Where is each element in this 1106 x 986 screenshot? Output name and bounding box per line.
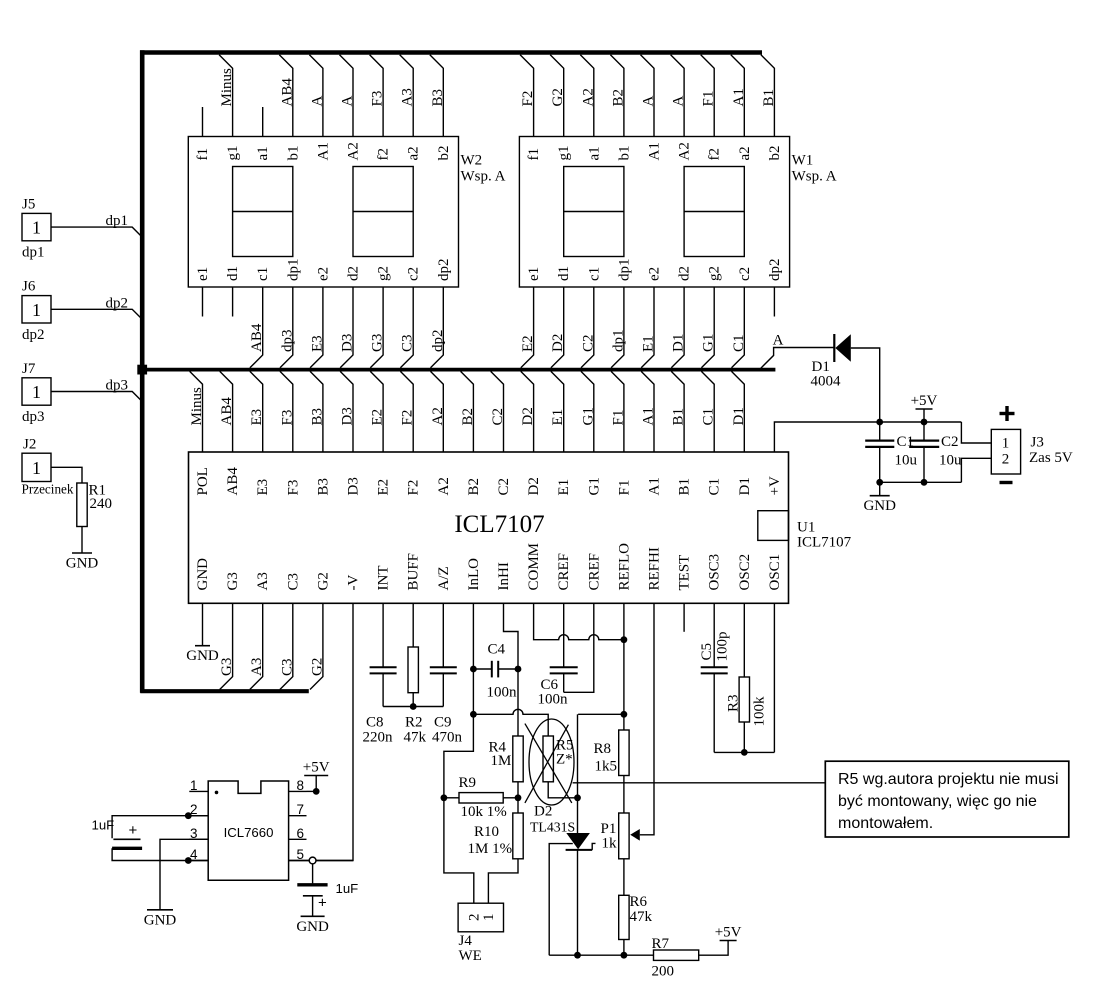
svg-text:D3: D3 <box>340 407 356 425</box>
wire net D3 display pin to middle bus <box>340 287 356 368</box>
label U1 ICL7107 designator <box>797 520 852 551</box>
svg-text:1: 1 <box>32 300 41 320</box>
connector J6 <box>22 279 51 343</box>
oscillator bottom rail <box>714 751 774 753</box>
resistor R3 100k <box>725 603 767 752</box>
svg-text:C3: C3 <box>279 658 295 676</box>
wire C8-R2-C9 common rail <box>383 706 443 708</box>
wire net A from middle bus end to diode D1 <box>761 333 834 369</box>
svg-text:d2: d2 <box>346 266 362 281</box>
bus junction at middle bus and vertical bus <box>137 365 147 375</box>
wire net F3 display pin to top bus <box>370 55 386 137</box>
wire net D3 middle bus to ICL7107 pin <box>340 371 356 452</box>
wire net A3 display pin to top bus <box>400 55 416 137</box>
svg-text:E2: E2 <box>520 335 536 352</box>
svg-text:J3: J3 <box>1031 435 1044 451</box>
svg-text:6: 6 <box>297 826 305 841</box>
svg-text:ICL7107: ICL7107 <box>797 535 852 551</box>
capacitor 1uF pump <box>92 818 143 849</box>
ground below C1 <box>879 482 881 495</box>
junction R5-TL431 <box>574 794 581 801</box>
svg-text:e1: e1 <box>526 267 542 281</box>
W1 pin labels bottom row <box>526 259 783 282</box>
svg-text:B3: B3 <box>430 89 446 107</box>
connector J7 <box>22 361 51 425</box>
power/display bus - left vertical bus <box>140 50 145 693</box>
svg-text:G2: G2 <box>315 572 331 590</box>
svg-text:GND: GND <box>144 912 177 928</box>
W1 digit glyph left <box>564 167 624 257</box>
svg-text:1: 1 <box>32 218 41 238</box>
minus mark at J3 <box>1000 481 1013 484</box>
wire net C3 ICL7107 pin to bottom bus <box>279 603 295 689</box>
wire net dp1 display pin to middle bus <box>610 287 626 368</box>
svg-text:A2: A2 <box>436 477 452 495</box>
svg-text:c2: c2 <box>737 267 753 281</box>
ground below R1 <box>66 553 99 572</box>
svg-text:R10: R10 <box>474 824 499 840</box>
wire InLO pin down <box>472 603 474 714</box>
svg-text:240: 240 <box>90 496 113 512</box>
svg-text:1uF: 1uF <box>92 818 115 833</box>
svg-text:a1: a1 <box>586 146 602 160</box>
wire pump capacitor to pin4 <box>112 848 208 860</box>
svg-text:C3: C3 <box>400 334 416 352</box>
W1 digit glyph right <box>684 167 744 257</box>
svg-text:B2: B2 <box>460 408 476 426</box>
wire InLO node to R5 top with hop over R4 <box>473 709 548 736</box>
junction C1 bottom <box>876 479 883 486</box>
svg-text:R3: R3 <box>725 694 741 712</box>
svg-text:D2: D2 <box>526 477 542 495</box>
svg-text:F2: F2 <box>400 410 416 426</box>
7-segment display W2 <box>188 137 458 288</box>
wire pin5 to -V line <box>307 860 354 862</box>
svg-text:100n: 100n <box>487 685 518 701</box>
wire net Minus middle bus to ICL7107 pin <box>189 371 205 452</box>
wire J7 dp3 to vertical bus <box>51 378 141 401</box>
connector J3 Zas 5V <box>991 429 1073 474</box>
svg-text:dp1: dp1 <box>22 245 45 261</box>
svg-text:E3: E3 <box>309 335 325 352</box>
U1 tab mark on right edge <box>758 511 789 541</box>
svg-text:Zas 5V: Zas 5V <box>1029 450 1073 466</box>
svg-text:a2: a2 <box>406 146 422 160</box>
junction C4 left <box>470 666 477 673</box>
svg-text:E3: E3 <box>255 479 271 496</box>
wire COMM to REFLO with hops over CREF <box>534 603 624 639</box>
wire OSC1 down to oscillator rail <box>773 603 775 752</box>
svg-text:47k: 47k <box>404 730 427 746</box>
svg-text:W1: W1 <box>792 153 814 169</box>
wire net C2 display pin to middle bus <box>580 287 596 368</box>
resistor R4 1M <box>489 736 524 782</box>
svg-text:OSC2: OSC2 <box>737 554 753 591</box>
svg-text:B2: B2 <box>466 478 482 496</box>
junction R3 bottom <box>741 749 748 756</box>
callout leader line for R5 note <box>573 782 826 784</box>
wire net E3 display pin to middle bus <box>309 287 325 368</box>
svg-text:A3: A3 <box>249 658 265 676</box>
svg-text:Minus: Minus <box>219 68 235 107</box>
svg-text:f1: f1 <box>526 148 542 161</box>
svg-text:A: A <box>641 96 657 107</box>
svg-text:C1: C1 <box>701 408 717 426</box>
junction R4-R9-R10 <box>515 794 522 801</box>
svg-text:GND: GND <box>66 556 99 572</box>
svg-text:c2: c2 <box>406 267 422 281</box>
capacitor C9 470n <box>430 603 463 745</box>
wire R9 left node down to J4 pin2 <box>444 798 474 903</box>
svg-text:g1: g1 <box>556 146 572 161</box>
svg-text:A2: A2 <box>346 142 362 160</box>
svg-text:1: 1 <box>190 778 198 793</box>
wire net G1 display pin to middle bus <box>701 287 717 368</box>
svg-text:F3: F3 <box>279 410 295 426</box>
svg-text:AB4: AB4 <box>219 397 235 426</box>
wire net dp3 display pin to middle bus <box>279 287 295 368</box>
junction R6 bottom rail <box>621 952 628 959</box>
wire net B3 middle bus to ICL7107 pin <box>309 371 325 452</box>
svg-text:e2: e2 <box>315 267 331 281</box>
wire J5 dp1 to vertical bus <box>51 213 141 236</box>
svg-text:GND: GND <box>296 919 329 935</box>
svg-text:d2: d2 <box>677 266 693 281</box>
resistor R2 47k <box>404 603 427 745</box>
resistor R6 47k <box>619 894 653 940</box>
svg-text:G2: G2 <box>550 88 566 106</box>
svg-text:R9: R9 <box>459 775 477 791</box>
svg-text:a2: a2 <box>737 146 753 160</box>
svg-text:dp1: dp1 <box>285 259 301 282</box>
svg-text:E3: E3 <box>249 409 265 426</box>
svg-text:WE: WE <box>459 948 482 964</box>
svg-text:220n: 220n <box>363 730 394 746</box>
svg-text:dp3: dp3 <box>106 378 129 394</box>
svg-text:B1: B1 <box>677 478 693 496</box>
svg-text:J5: J5 <box>22 197 35 213</box>
svg-text:2: 2 <box>1002 452 1010 468</box>
capacitor 1uF output <box>297 864 358 916</box>
svg-text:C2: C2 <box>490 408 506 426</box>
svg-text:d1: d1 <box>556 266 572 281</box>
wire R8 to P1 <box>623 776 625 814</box>
svg-text:1M 1%: 1M 1% <box>468 841 513 857</box>
capacitor C2 10u <box>909 422 962 482</box>
junction pin5 open <box>309 857 316 864</box>
wire net C1 middle bus to ICL7107 pin <box>701 371 717 452</box>
svg-text:InLO: InLO <box>466 558 482 591</box>
diode D2 TL431S <box>530 804 596 850</box>
connector J4 WE <box>458 903 503 964</box>
wire +5V to pin8 <box>315 776 317 792</box>
svg-text:100k: 100k <box>751 696 767 727</box>
resistor R9 10k 1% <box>444 775 518 820</box>
diode D1 4004 <box>811 334 851 390</box>
svg-text:dp3: dp3 <box>22 409 45 425</box>
svg-text:CREF: CREF <box>556 553 572 591</box>
wire net F3 middle bus to ICL7107 pin <box>279 371 295 452</box>
svg-text:BUFF: BUFF <box>406 553 422 591</box>
svg-text:J6: J6 <box>22 279 36 295</box>
IC U1 ICL7107 body <box>189 452 789 603</box>
svg-text:G1: G1 <box>580 407 596 425</box>
svg-text:CREF: CREF <box>586 553 602 591</box>
svg-text:1M: 1M <box>491 753 512 769</box>
svg-text:W2: W2 <box>461 153 483 169</box>
svg-text:dp1: dp1 <box>610 330 626 353</box>
wire TL431 anode down to rail <box>577 850 579 955</box>
wire net C1 display pin to middle bus <box>731 287 747 368</box>
wire net B1 middle bus to ICL7107 pin <box>671 371 687 452</box>
svg-text:Wsp. A: Wsp. A <box>792 169 837 185</box>
svg-text:+5V: +5V <box>911 393 938 409</box>
svg-text:POL: POL <box>195 467 211 495</box>
svg-text:C8: C8 <box>366 715 384 731</box>
svg-text:A2: A2 <box>430 407 446 425</box>
wire net A1 display pin to top bus <box>731 55 747 137</box>
ground symbol below C1 <box>863 496 896 515</box>
svg-text:Minus: Minus <box>189 387 205 426</box>
svg-text:f2: f2 <box>376 148 392 161</box>
junction COMM-REFLO <box>621 636 628 643</box>
svg-text:F1: F1 <box>616 480 632 496</box>
wire net C3 display pin to middle bus <box>400 287 416 368</box>
wire R1 to ground <box>81 527 83 554</box>
svg-text:być montowany, więc go nie: być montowany, więc go nie <box>838 793 1037 810</box>
IC ICL7660 body <box>208 781 288 880</box>
svg-text:OSC3: OSC3 <box>707 554 723 591</box>
wire net D2 display pin to middle bus <box>550 287 566 368</box>
wire R10 bottom to J4 pin1 <box>488 859 518 903</box>
label W2 Wsp. A <box>461 153 506 185</box>
svg-text:470n: 470n <box>432 730 463 746</box>
junction D1/C1 on +5V rail <box>876 419 883 426</box>
label W1 Wsp. A <box>792 153 837 185</box>
ICL7107 pin labels top row <box>195 467 783 496</box>
wire net D2 middle bus to ICL7107 pin <box>520 371 536 452</box>
svg-text:R2: R2 <box>405 715 423 731</box>
svg-text:e2: e2 <box>647 267 663 281</box>
wire net G3 ICL7107 pin to bottom bus <box>219 603 235 689</box>
connector J5 <box>22 197 51 261</box>
junction R2 bottom <box>410 703 417 710</box>
svg-text:A: A <box>340 96 356 107</box>
wire net A display pin to top bus <box>671 55 687 137</box>
wire pin2 to pump capacitor <box>112 816 208 839</box>
wire net B1 display pin to top bus <box>761 55 777 137</box>
wire net F2 middle bus to ICL7107 pin <box>400 371 416 452</box>
ellipse crossing out R5 <box>529 719 574 805</box>
svg-text:1k5: 1k5 <box>595 759 618 775</box>
resistor R5 Z* (not mounted) <box>543 736 574 782</box>
+5V supply at R7 <box>715 925 742 941</box>
svg-text:AB4: AB4 <box>225 467 241 496</box>
svg-text:A1: A1 <box>731 88 747 106</box>
svg-text:1: 1 <box>1002 436 1010 452</box>
svg-text:ICL7107: ICL7107 <box>454 511 544 538</box>
svg-text:F3: F3 <box>285 480 301 496</box>
wire CREF right pin down to C6 bottom <box>564 603 594 692</box>
svg-text:1: 1 <box>481 914 497 922</box>
svg-text:A1: A1 <box>647 477 663 495</box>
svg-text:D1: D1 <box>731 407 747 425</box>
wire net A display pin to top bus <box>309 55 325 137</box>
W1 pin labels top row <box>526 142 783 160</box>
svg-text:C4: C4 <box>488 642 506 658</box>
svg-text:7: 7 <box>297 802 305 817</box>
junction C4 right <box>515 666 522 673</box>
svg-text:-V: -V <box>346 575 362 591</box>
wire D1 cathode to rail <box>851 348 880 422</box>
power/display bus - top horizontal segment bus <box>140 50 762 55</box>
svg-text:10u: 10u <box>939 453 962 469</box>
svg-text:COMM: COMM <box>526 543 542 591</box>
W2 pin labels bottom row <box>195 259 452 282</box>
W2 digit glyph left <box>233 167 293 257</box>
wire net Minus display pin to top bus <box>219 55 235 137</box>
ground at ICL7660 pin3 <box>144 910 177 929</box>
svg-text:GND: GND <box>195 558 211 591</box>
resistor R10 1M 1% <box>468 813 524 859</box>
wire TL431 cathode column <box>577 714 579 833</box>
svg-text:A: A <box>671 96 687 107</box>
svg-text:+: + <box>318 895 327 912</box>
svg-text:J7: J7 <box>22 361 36 377</box>
wire net B3 display pin to top bus <box>430 55 446 137</box>
svg-text:dp2: dp2 <box>22 327 45 343</box>
wire net A2 display pin to top bus <box>580 55 596 137</box>
bottom bus segment under ICL7107 <box>140 689 308 693</box>
capacitor C1 10u <box>865 422 917 482</box>
junction +5V/C2 on rail <box>921 419 928 426</box>
wire net B2 middle bus to ICL7107 pin <box>460 371 476 452</box>
svg-text:E1: E1 <box>556 479 572 496</box>
svg-text:AB4: AB4 <box>249 323 265 352</box>
svg-text:C2: C2 <box>941 434 959 450</box>
svg-text:A2: A2 <box>677 142 693 160</box>
wire InHI pin jog to C4/R4 column <box>504 603 519 736</box>
svg-text:f2: f2 <box>707 148 723 161</box>
svg-text:E2: E2 <box>370 409 386 426</box>
svg-text:E2: E2 <box>376 479 392 496</box>
svg-text:Z*: Z* <box>556 752 573 768</box>
ground below 1uF output cap <box>296 916 329 935</box>
wire net G1 middle bus to ICL7107 pin <box>580 371 596 452</box>
capacitor C4 100n <box>473 642 518 701</box>
resistor R8 1k5 <box>594 730 630 776</box>
svg-text:AB4: AB4 <box>279 78 295 107</box>
svg-text:REFLO: REFLO <box>616 543 632 591</box>
wire net G2 display pin to top bus <box>550 55 566 137</box>
svg-text:+5V: +5V <box>303 760 330 776</box>
svg-text:J4: J4 <box>459 933 473 949</box>
wire net AB4 display pin to top bus <box>279 55 295 137</box>
junction pin4 <box>185 857 192 864</box>
W2 digit glyph right <box>353 167 413 257</box>
wire R5 bottom to TL431 node <box>548 782 577 798</box>
bottom rail TL431 to R6 <box>549 954 624 956</box>
junction REFLO-R8 <box>621 711 628 718</box>
wire R7 to +5V <box>699 941 728 956</box>
svg-text:D2: D2 <box>520 407 536 425</box>
svg-text:A/Z: A/Z <box>436 566 452 590</box>
svg-text:c1: c1 <box>255 267 271 281</box>
svg-text:D1: D1 <box>737 477 753 495</box>
svg-text:c1: c1 <box>586 267 602 281</box>
svg-text:C3: C3 <box>285 573 301 591</box>
svg-text:g2: g2 <box>376 266 392 281</box>
svg-text:Przecinek: Przecinek <box>22 482 74 497</box>
svg-text:ICL7660: ICL7660 <box>224 825 274 840</box>
svg-text:47k: 47k <box>630 909 653 925</box>
wire net A1 middle bus to ICL7107 pin <box>641 371 657 452</box>
wire net G2 ICL7107 pin to bottom bus <box>309 603 325 689</box>
ground rail below C1 C2 <box>880 481 962 483</box>
ground at ICL7107 GND pin <box>186 646 219 665</box>
svg-text:B1: B1 <box>671 408 687 426</box>
svg-text:REFHI: REFHI <box>647 547 663 590</box>
svg-text:b2: b2 <box>436 146 452 161</box>
svg-text:4004: 4004 <box>811 374 842 390</box>
wire TL431 ref lead <box>549 844 573 956</box>
+5V supply at C2 <box>911 393 938 409</box>
svg-text:C5: C5 <box>699 643 715 661</box>
wire InLO jog down to R9 left node <box>444 714 474 798</box>
wire net E3 middle bus to ICL7107 pin <box>249 371 265 452</box>
svg-text:F2: F2 <box>520 91 536 107</box>
resistor R1 <box>77 483 112 527</box>
wire net E2 middle bus to ICL7107 pin <box>370 371 386 452</box>
wire net G3 display pin to middle bus <box>370 287 386 368</box>
svg-text:dp2: dp2 <box>106 295 129 311</box>
svg-text:g1: g1 <box>225 146 241 161</box>
svg-text:b1: b1 <box>285 146 301 161</box>
svg-text:G1: G1 <box>701 334 717 352</box>
unconnected stub display pin x=262.7 top <box>262 107 264 137</box>
wire net E1 display pin to middle bus <box>641 287 657 368</box>
svg-text:G2: G2 <box>309 658 325 676</box>
unconnected stub TEST pin <box>683 603 685 632</box>
svg-text:B3: B3 <box>315 478 331 496</box>
svg-text:dp3: dp3 <box>279 330 295 353</box>
wire net AB4 display pin to middle bus <box>249 287 265 368</box>
wire net A3 ICL7107 pin to bottom bus <box>249 603 265 689</box>
wire net A display pin to top bus <box>641 55 657 137</box>
svg-text:B2: B2 <box>610 89 626 107</box>
svg-text:D1: D1 <box>671 334 687 352</box>
svg-text:R6: R6 <box>630 894 648 910</box>
svg-text:G3: G3 <box>219 658 235 676</box>
wire J3 pin2 to ground rail <box>961 458 991 482</box>
svg-text:1: 1 <box>32 458 41 478</box>
W2 pin labels top row <box>195 142 452 160</box>
svg-text:R7: R7 <box>652 936 670 952</box>
svg-text:C1: C1 <box>707 478 723 496</box>
svg-text:b2: b2 <box>767 146 783 161</box>
svg-text:8: 8 <box>297 778 305 793</box>
svg-text:R5 wg.autora projektu nie musi: R5 wg.autora projektu nie musi <box>838 771 1059 788</box>
wire net A2 middle bus to ICL7107 pin <box>430 371 446 452</box>
svg-text:B3: B3 <box>309 408 325 426</box>
svg-text:10u: 10u <box>895 453 918 469</box>
wire J2 to R1 <box>51 467 82 483</box>
svg-text:A3: A3 <box>400 88 416 106</box>
svg-text:1uF: 1uF <box>336 881 359 896</box>
svg-text:100n: 100n <box>538 692 569 708</box>
wire net B2 display pin to top bus <box>610 55 626 137</box>
svg-text:dp2: dp2 <box>430 330 446 353</box>
